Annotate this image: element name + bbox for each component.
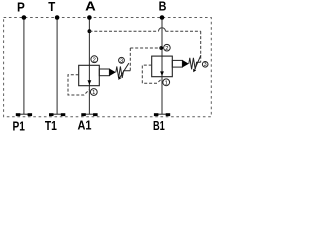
svg-text:T: T bbox=[48, 0, 55, 14]
valve V2 spring bbox=[189, 58, 201, 70]
valve V1 spring bbox=[116, 66, 131, 78]
svg-text:P: P bbox=[17, 0, 25, 14]
node marker 2 on V2 bbox=[164, 44, 171, 51]
junction dot T top bbox=[55, 15, 60, 20]
svg-text:3: 3 bbox=[204, 62, 207, 68]
svg-text:1: 1 bbox=[165, 80, 168, 86]
port T1 bottom flange bbox=[49, 113, 65, 116]
pilot line from A to V2 spring (dashed, right of hop) bbox=[166, 30, 201, 32]
valve V2 flow arrow (down) bbox=[160, 71, 164, 76]
valve V1 actuator arrowhead bbox=[109, 69, 115, 76]
pilot line from B to V1 spring (dashed horizontal) bbox=[130, 47, 161, 49]
valve V2 drain/feedback pilot loop (dashed) bbox=[142, 65, 162, 83]
svg-text:T1: T1 bbox=[45, 118, 57, 131]
svg-text:2: 2 bbox=[93, 57, 96, 63]
node marker 3 on V1 bbox=[119, 57, 125, 64]
node marker 1 on V2 bbox=[163, 79, 170, 87]
enclosure border (sandwich plate outline, dashed) bbox=[4, 18, 212, 117]
pilot line from A to V2 spring (dashed, left of hop) bbox=[89, 30, 158, 32]
junction dot A pilot takeoff bbox=[88, 29, 92, 33]
valve V2 spring pilot arrow (diagonal) bbox=[195, 55, 201, 69]
svg-text:2: 2 bbox=[165, 46, 168, 52]
junction dot A top bbox=[87, 15, 92, 20]
svg-text:3: 3 bbox=[120, 58, 123, 64]
port B1 bottom flange bbox=[154, 113, 170, 116]
node marker 1 on V1 bbox=[90, 89, 97, 97]
junction dot P top bbox=[22, 15, 27, 20]
node marker 2 on V1 bbox=[91, 56, 98, 64]
pilot line drop to V1 spring (dashed vertical) bbox=[129, 48, 131, 71]
port P1 bottom flange bbox=[16, 113, 32, 116]
valve V1 spring pilot arrow (diagonal) bbox=[120, 63, 129, 77]
svg-text:A1: A1 bbox=[78, 117, 92, 131]
valve V2 body bbox=[152, 56, 173, 77]
svg-text:P1: P1 bbox=[13, 118, 25, 131]
svg-text:A: A bbox=[85, 0, 96, 14]
valve V1 body bbox=[79, 65, 100, 85]
wire: T line bbox=[56, 18, 58, 115]
svg-text:B1: B1 bbox=[153, 118, 165, 131]
valve V2 actuator arrowhead bbox=[182, 60, 188, 67]
node marker 3 on V2 bbox=[202, 62, 208, 69]
svg-text:B: B bbox=[159, 0, 167, 14]
junction dot B pilot takeoff bbox=[159, 46, 163, 50]
valve V1 flow arrow (down) bbox=[88, 80, 92, 85]
port A1 bottom flange bbox=[81, 113, 97, 116]
crossover hop over B line bbox=[159, 28, 166, 31]
valve V2 actuator box bbox=[172, 60, 182, 67]
valve V1 actuator box bbox=[99, 69, 109, 76]
wire: P line bbox=[23, 18, 25, 115]
wire: B line bbox=[161, 18, 163, 115]
pilot line drop to V2 spring (dashed vertical) bbox=[200, 31, 202, 62]
valve V1 drain/feedback pilot loop (dashed) bbox=[68, 75, 89, 95]
svg-text:1: 1 bbox=[92, 90, 95, 96]
wire: A line bbox=[88, 18, 90, 115]
junction dot B top bbox=[160, 15, 165, 20]
